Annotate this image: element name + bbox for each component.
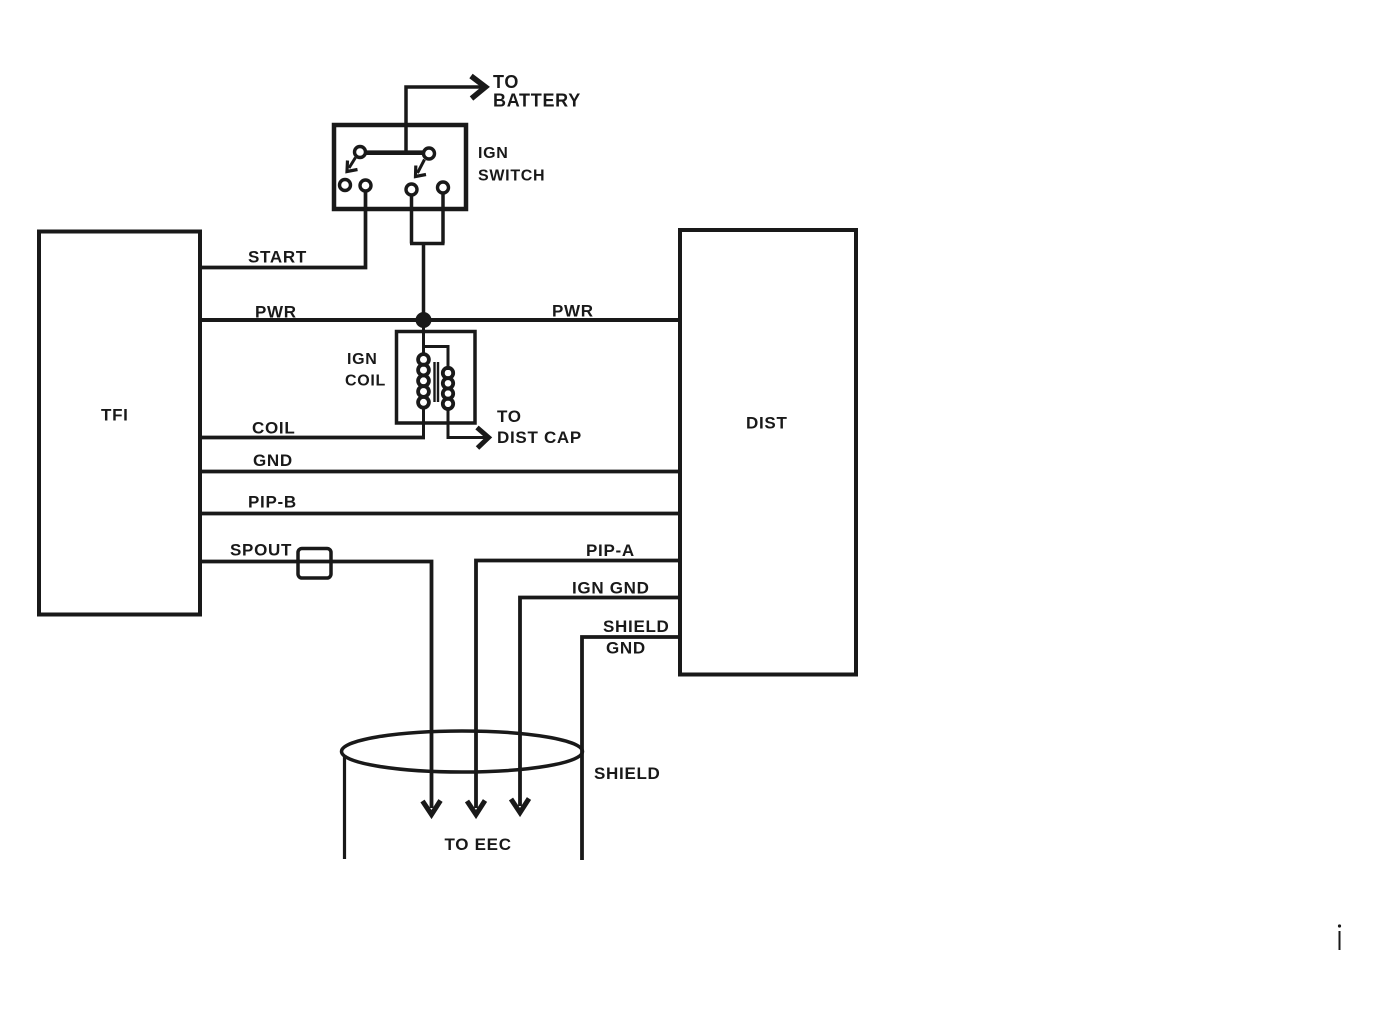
svg-text:COIL: COIL [252, 419, 295, 438]
svg-text:TO EEC: TO EEC [445, 835, 512, 854]
arrowhead IGN GND to EEC [511, 799, 529, 813]
svg-text:IGN: IGN [347, 351, 378, 368]
svg-text:SHIELD: SHIELD [603, 617, 670, 636]
svg-text:IGN GND: IGN GND [572, 579, 650, 598]
switch contact lower 2 [360, 180, 371, 191]
svg-text:SHIELD: SHIELD [594, 764, 661, 783]
wire switch merge to PWR junction [410, 193, 445, 320]
IGN switch box [334, 125, 466, 209]
svg-text:START: START [248, 248, 307, 267]
arrowhead SPOUT to EEC [423, 801, 441, 815]
junction dot [416, 312, 432, 328]
shield ellipse [342, 731, 583, 772]
svg-text:GND: GND [253, 451, 293, 470]
svg-text:DIST: DIST [746, 414, 788, 433]
svg-text:DIST CAP: DIST CAP [497, 428, 582, 447]
coil secondary winding [443, 368, 453, 378]
svg-text:PWR: PWR [255, 303, 297, 322]
svg-text:TO: TO [497, 407, 522, 426]
IGN coil box [397, 332, 476, 424]
arrowhead PIP-A to EEC [467, 801, 485, 815]
svg-text:TO: TO [493, 72, 519, 92]
wire to battery [406, 87, 483, 152]
switch arrow left [349, 158, 356, 169]
coil core [435, 362, 439, 402]
switch contact lower 3 [406, 184, 417, 195]
switch bar between upper contacts [366, 150, 424, 155]
switch contact lower 1 [340, 180, 351, 191]
shield left side [343, 755, 346, 859]
DIST distributor box [680, 230, 856, 675]
wire SPOUT [200, 562, 432, 809]
wire COIL [200, 436, 425, 440]
svg-text:PIP-B: PIP-B [248, 493, 297, 512]
SPOUT connector [298, 549, 331, 579]
svg-text:PWR: PWR [552, 302, 594, 321]
svg-text:BATTERY: BATTERY [493, 91, 581, 111]
wire PWR [200, 318, 680, 322]
wire PIP-A [476, 561, 680, 809]
wire START [200, 191, 366, 268]
switch contact lower 4 [438, 182, 449, 193]
TFI module box [39, 232, 200, 615]
svg-text:GND: GND [606, 639, 646, 658]
svg-text:COIL: COIL [345, 373, 386, 390]
stray i mark [1339, 931, 1341, 950]
svg-text:SPOUT: SPOUT [230, 541, 292, 560]
wire SHIELD GND [582, 637, 680, 860]
svg-text:TFI: TFI [101, 406, 129, 425]
coil secondary wire [424, 347, 486, 438]
svg-text:IGN: IGN [478, 145, 509, 162]
coil primary winding [418, 354, 429, 365]
switch contact upper-left [355, 147, 366, 158]
wire IGN GND [520, 598, 680, 807]
coil primary wire [422, 320, 425, 438]
wire PIP-B [200, 512, 680, 516]
wire GND [200, 470, 680, 474]
arrowhead to battery [471, 76, 486, 99]
switch arrow right [418, 160, 425, 174]
svg-text:PIP-A: PIP-A [586, 541, 635, 560]
svg-text:SWITCH: SWITCH [478, 168, 545, 185]
switch contact upper-right [424, 148, 435, 159]
arrowhead to dist cap [477, 428, 489, 449]
